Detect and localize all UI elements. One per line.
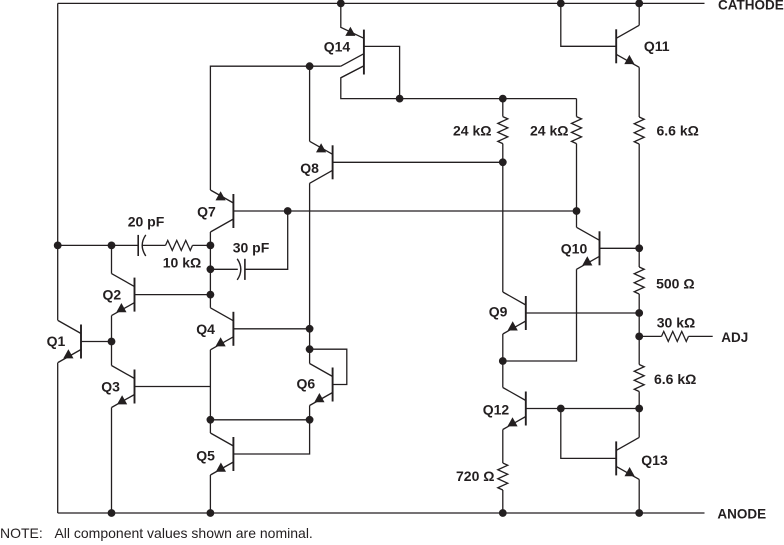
transistor Q7: [232, 194, 234, 228]
wire Q7 base row: [233, 210, 576, 212]
wire node 500 to ADJ node: [638, 313, 640, 336]
node comp row / Q7 collector: [207, 242, 215, 250]
svg-text:NOTE: All component values s: NOTE: All component values shown are nom…: [0, 525, 313, 541]
wire 500 ohm bottom: [638, 294, 640, 313]
wire Q3 base: [135, 386, 211, 388]
capacitor C2 30 pF plate: [244, 259, 246, 280]
wire Q14 collector down: [341, 66, 577, 99]
node anode / Q5 emitter: [207, 509, 215, 517]
wire 30 k to ADJ: [639, 335, 661, 337]
node anode / 720 ohm: [499, 509, 507, 517]
node cathode / Q14 emitter: [337, 0, 345, 7]
wire Q12 emitter to 720: [502, 430, 504, 464]
node Q10 base / 6.6 k: [635, 244, 643, 252]
wire Q10 emitter down to row: [503, 269, 577, 361]
wire Q1 emitter to anode rail: [57, 363, 59, 514]
transistor Q14: [363, 30, 365, 75]
transistor Q2: [134, 278, 136, 312]
wire 30 k right lead: [689, 335, 713, 337]
svg-text:Q4: Q4: [196, 321, 215, 337]
resistor R1 10 k: [166, 240, 193, 250]
node Q7 base / 30 pF: [284, 207, 292, 215]
wire Q2 base to node: [135, 294, 211, 296]
wire 24 k no.1 top: [502, 99, 504, 117]
wire Q4 base: [233, 328, 309, 330]
wire Q12 base row: [526, 408, 639, 410]
capacitor C2 30 pF curved plate: [237, 259, 241, 280]
transistor Q13: [615, 441, 617, 475]
wire Q5 collector: [209, 420, 211, 433]
wire anode bottom rail: [58, 512, 705, 514]
wire Q11 base: [561, 3, 616, 46]
node 24 k no.1 top: [499, 95, 507, 103]
node 30 pF row: [207, 265, 215, 273]
svg-text:24 kΩ: 24 kΩ: [530, 123, 568, 139]
wire 500 ohm top: [638, 248, 640, 267]
wire Q6 collector: [309, 349, 311, 363]
wire Q14 collector loop: [364, 46, 400, 98]
svg-text:Q11: Q11: [644, 38, 670, 54]
transistor Q11: [615, 29, 617, 63]
resistor R2 24 k left: [498, 117, 508, 144]
resistor R4 6.6 k upper: [634, 117, 644, 144]
wire 20 pF to 10 k resistor: [142, 244, 165, 246]
svg-text:720 Ω: 720 Ω: [456, 468, 494, 484]
wire Q9 base: [526, 312, 639, 314]
node 24 k no.2 bottom / Q10 collector: [573, 207, 581, 215]
wire 6.6 k no.2 bottom: [638, 392, 640, 409]
wire Q8 base: [333, 161, 503, 163]
svg-text:ANODE: ANODE: [717, 507, 766, 522]
node Q14 collector loop: [396, 95, 404, 103]
wire 30 pF to Q7 base: [245, 211, 288, 269]
wire 24 k no.2 bottom to Q10 collector node: [576, 144, 578, 211]
wire node Q4 base to Q6: [309, 329, 311, 349]
capacitor C1 20 pF curved plate: [142, 235, 146, 256]
svg-text:Q5: Q5: [196, 448, 215, 464]
wire 6.6 k no.2 top: [638, 336, 640, 364]
wire Q3 collector vertical: [111, 342, 113, 366]
svg-text:30 pF: 30 pF: [233, 240, 270, 256]
wire 24 k no.2 top: [576, 99, 578, 117]
wire 30 pF row left: [210, 268, 237, 270]
wire compensation row (rail to 20 pF): [58, 244, 139, 246]
svg-text:Q9: Q9: [489, 304, 508, 320]
wire Q13 emitter to anode: [638, 479, 640, 513]
wire Q7 emitter riser: [210, 66, 309, 190]
wire Q2 emitter vertical: [111, 316, 113, 342]
svg-text:6.6 kΩ: 6.6 kΩ: [654, 371, 696, 387]
wire Q8 collector vertical: [309, 183, 311, 328]
node Q12 base / Q13 base: [557, 405, 565, 413]
wire 24 k no.1 bottom: [502, 144, 504, 163]
wire Q6 base loop: [310, 349, 347, 384]
svg-text:Q6: Q6: [297, 376, 316, 392]
transistor Q4: [232, 312, 234, 346]
wire lower mirror row: [210, 419, 309, 421]
wire Q13 collector: [638, 409, 640, 438]
wire Q6 emitter: [309, 406, 311, 420]
svg-text:Q3: Q3: [101, 379, 120, 395]
wire node column Q1 base / Q2 emitter: [111, 245, 113, 273]
wire Q12 collector: [502, 361, 504, 388]
node Q14 base / Q7 Q8 emitters: [306, 62, 314, 70]
svg-text:10 kΩ: 10 kΩ: [163, 255, 201, 271]
transistor Q9: [525, 296, 527, 330]
transistor Q5: [232, 437, 234, 471]
node Q1 base / Q2 emitter: [108, 338, 116, 346]
node Q8 base / 24 k no.1 bottom: [499, 158, 507, 166]
svg-text:24 kΩ: 24 kΩ: [453, 123, 491, 139]
svg-text:500 Ω: 500 Ω: [656, 275, 694, 291]
wire Q9 collector vertical: [502, 162, 504, 292]
capacitor C1 20 pF plate: [137, 235, 139, 256]
node Q4 base: [306, 325, 314, 333]
svg-text:30 kΩ: 30 kΩ: [657, 314, 695, 330]
wire Q11 emitter to 6.6 k: [638, 67, 640, 117]
wire Q13 base branch: [561, 409, 616, 459]
transistor Q12: [525, 392, 527, 426]
wire Q3 emitter to anode: [111, 408, 113, 514]
node anode / Q13 emitter: [635, 509, 643, 517]
wire Q10 base: [600, 247, 640, 249]
node anode / Q3 emitter: [108, 509, 116, 517]
node Q4 emitter / Q5 collector: [207, 416, 215, 424]
resistor R6 30 k: [662, 331, 689, 341]
wire Q5 base: [233, 420, 309, 454]
svg-text:6.6 kΩ: 6.6 kΩ: [657, 123, 699, 139]
wire Q14 base from node: [310, 65, 341, 67]
wire Q7 collector vertical: [209, 232, 211, 308]
node ADJ / 30 k: [635, 333, 643, 341]
wire left rail (cathode to Q1 collector): [57, 3, 59, 320]
transistor Q3: [134, 370, 136, 404]
resistor R7 6.6 k lower: [634, 365, 644, 392]
wire cathode top rail: [58, 2, 705, 4]
svg-text:Q8: Q8: [300, 160, 319, 176]
node Q2 base: [207, 291, 215, 299]
resistor R5 500 ohm: [634, 267, 644, 294]
wire 10 k resistor to node: [193, 244, 211, 246]
transistor Q8: [332, 145, 334, 179]
node Q6 collector-base: [306, 345, 314, 353]
transistor Q1: [80, 325, 82, 359]
svg-text:Q14: Q14: [324, 39, 351, 55]
resistor R3 24 k right: [572, 117, 582, 144]
node Q9 base / 500 ohm: [635, 309, 643, 317]
svg-text:Q13: Q13: [641, 452, 668, 468]
resistor R8 720 ohm: [498, 463, 508, 490]
svg-text:Q12: Q12: [483, 402, 510, 418]
wire Q4 emitter to lower node: [209, 350, 211, 420]
wire 6.6 k no.1 to Q10 base node: [638, 144, 640, 248]
wire Q11 collector: [638, 3, 640, 25]
svg-text:Q1: Q1: [47, 333, 66, 349]
wire Q9 emitter: [502, 334, 504, 361]
svg-text:20 pF: 20 pF: [128, 214, 165, 230]
wire 720 to anode: [502, 490, 504, 513]
transistor Q6: [332, 368, 334, 402]
svg-text:CATHODE: CATHODE: [718, 0, 784, 13]
node Q6 emitter / Q5 base: [306, 416, 314, 424]
node rail / compensation row: [54, 242, 62, 250]
svg-text:Q7: Q7: [197, 204, 216, 220]
wire Q8 emitter vertical: [309, 66, 311, 141]
svg-text:ADJ: ADJ: [721, 330, 748, 345]
wire Q10 collector riser: [576, 211, 578, 227]
svg-text:Q10: Q10: [561, 241, 588, 257]
wire Q14 emitter from rail: [341, 3, 364, 38]
wire Q1 base: [81, 341, 112, 343]
node comp row / Q2 collector: [108, 242, 116, 250]
node cathode / Q11 base: [557, 0, 565, 7]
wire Q5 emitter to anode: [209, 475, 211, 513]
node cathode / Q11 collector: [635, 0, 643, 7]
node Q13 collector / 6.6 k: [635, 405, 643, 413]
transistor Q10: [599, 231, 601, 265]
node Q9 emitter / Q12 collector: [499, 357, 507, 365]
svg-text:Q2: Q2: [103, 287, 122, 303]
